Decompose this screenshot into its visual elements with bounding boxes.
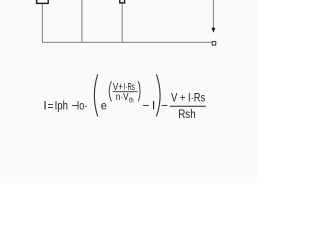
svg-text:V + I·Rs: V + I·Rs bbox=[171, 92, 205, 105]
svg-text:+: + bbox=[118, 81, 123, 92]
svg-text:I: I bbox=[43, 98, 46, 112]
svg-text:−: − bbox=[161, 99, 168, 113]
svg-text:−: − bbox=[142, 99, 149, 113]
svg-text:e: e bbox=[101, 100, 107, 113]
svg-text:I: I bbox=[152, 99, 155, 113]
svg-text:V: V bbox=[113, 81, 118, 92]
svg-text:·: · bbox=[84, 98, 88, 112]
svg-text:=: = bbox=[48, 100, 54, 113]
svg-text:Rsh: Rsh bbox=[178, 108, 196, 121]
svg-text:th: th bbox=[129, 97, 134, 105]
svg-text:n·V: n·V bbox=[116, 91, 130, 102]
svg-text:Iph: Iph bbox=[55, 99, 68, 112]
